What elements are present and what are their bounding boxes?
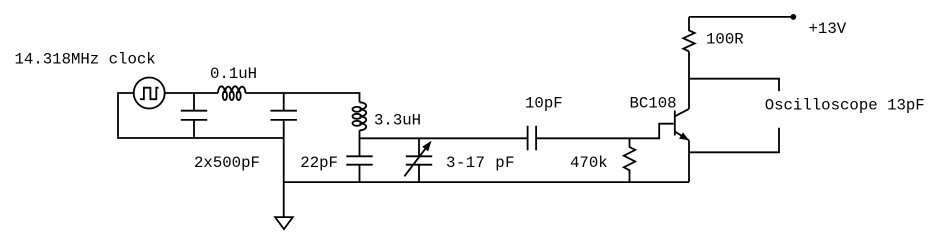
capacitor C3 22pF (346, 138, 372, 182)
wire: top rail from clock to corner above 3.3uH (165, 93, 360, 102)
ground symbol (275, 217, 293, 229)
inductor L1 0.1uH (218, 86, 246, 100)
svg-text:14.318MHz clock: 14.318MHz clock (15, 51, 156, 69)
wire: 10pF to base jog (536, 124, 674, 139)
supply wire to +13V (689, 16, 793, 18)
clock source V1 (134, 78, 165, 109)
node dot +13V (790, 14, 796, 20)
wire: mid rail to 10pF (360, 137, 528, 139)
wire: coil bottom to mid node (359, 130, 361, 138)
capacitor C5 10pF (528, 126, 537, 151)
bottom rail (284, 181, 689, 183)
variable capacitor C4 3-17pF (404, 138, 432, 182)
capacitor C2 500pF (271, 93, 297, 138)
collector vertical wire (688, 52, 690, 109)
emitter vertical wire (688, 140, 690, 182)
capacitor C1 500pF (181, 93, 207, 138)
svg-text:Oscilloscope 13pF: Oscilloscope 13pF (765, 97, 925, 115)
ground stem (283, 138, 285, 217)
svg-text:0.1uH: 0.1uH (210, 65, 257, 83)
svg-text:BC108: BC108 (630, 95, 677, 113)
svg-text:22pF: 22pF (300, 154, 338, 172)
wire: clock left loop to bottom node (118, 93, 284, 138)
svg-text:3.3uH: 3.3uH (374, 111, 421, 129)
transistor Q1 BC108 (675, 109, 689, 140)
svg-text:10pF: 10pF (525, 95, 563, 113)
inductor L2 3.3uH (353, 102, 367, 130)
resistor R1 470k (624, 138, 635, 182)
svg-text:+13V: +13V (809, 20, 847, 38)
svg-text:2x500pF: 2x500pF (194, 154, 260, 172)
svg-text:100R: 100R (706, 31, 744, 49)
svg-text:470k: 470k (570, 154, 608, 172)
oscilloscope bottom lead (689, 128, 779, 153)
resistor R2 100R (683, 17, 694, 52)
svg-text:3-17 pF: 3-17 pF (446, 154, 515, 172)
oscilloscope top lead (689, 79, 779, 91)
